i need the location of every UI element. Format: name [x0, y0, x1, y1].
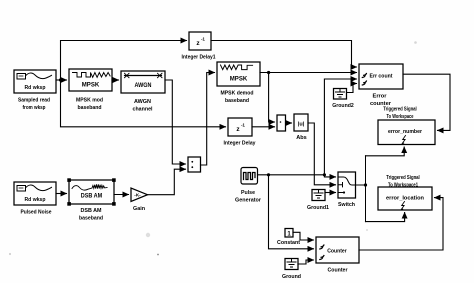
svg-text:-1: -1 [241, 123, 245, 128]
svg-text:baseband: baseband [79, 216, 104, 222]
svg-text:Triggered Signal: Triggered Signal [383, 107, 417, 113]
node branch junction at Rd wksp output [59, 78, 62, 81]
svg-text:Err count: Err count [370, 74, 393, 80]
svg-text:Generator: Generator [235, 198, 262, 204]
wire Integer Delay to Sum2 in2 [252, 126, 275, 128]
wire Constant to Counter in1 [293, 232, 314, 240]
label Integer Delay1 [182, 55, 216, 61]
wire Rd wksp to MPSK [56, 79, 67, 81]
svg-text:MPSK: MPSK [230, 76, 248, 83]
svg-text:Ground2: Ground2 [332, 103, 354, 109]
wire Sum1 up to MPSK demod [201, 73, 215, 166]
wire Pulse Generator branch up to Err count in3 [324, 79, 356, 175]
svg-text:Pulsed Noise: Pulsed Noise [21, 210, 52, 216]
wire Ground2 to Err count in4 [347, 84, 357, 93]
wire Gain up to Sum1 in2 [148, 169, 186, 195]
node junction Switch output [364, 183, 367, 186]
svg-text:Triggered Signal: Triggered Signal [386, 175, 420, 181]
svg-text:Integer Delay: Integer Delay [224, 141, 257, 147]
wire DSB AM to Gain [114, 194, 129, 196]
label Ground [282, 274, 302, 280]
svg-text:from wksp: from wksp [23, 105, 46, 111]
svg-text:AWGN: AWGN [135, 83, 152, 89]
wire Integer Delay1 to Err count in1 [211, 41, 357, 68]
block error_location (Triggered Signal To Workspace1) [378, 187, 432, 210]
svg-text:-1: -1 [201, 37, 205, 42]
wire demod branch down to Sum2 in1 [269, 73, 275, 123]
label MPSK mod baseband [76, 98, 104, 112]
label Ground1 [307, 205, 329, 211]
label Constant [277, 240, 300, 246]
svg-text:|u|: |u| [298, 122, 305, 128]
block Rd wksp (Sampled read from wksp) [14, 70, 56, 93]
svg-text:Abs: Abs [296, 135, 307, 141]
block Switch [338, 172, 356, 198]
svg-text:Sampled read: Sampled read [18, 98, 51, 104]
block AWGN channel [121, 71, 165, 93]
svg-text:DSB AM: DSB AM [81, 193, 103, 200]
block error_number (Triggered Signal To Workspace) [378, 120, 435, 145]
block Gain [131, 188, 148, 202]
label Integer Delay [224, 141, 257, 147]
wire MPSK demod to Err count in2 [260, 72, 357, 74]
node junction Pulse Generator branch up [323, 173, 326, 176]
wire MPSK to AWGN [112, 79, 119, 81]
svg-text:MPSK: MPSK [82, 82, 100, 89]
node junction demod output branch [267, 71, 270, 74]
svg-text:Ground: Ground [282, 274, 302, 280]
wire Ground to Counter in3 [298, 260, 314, 264]
svg-text:Ground1: Ground1 [307, 205, 329, 211]
wire Ground1 to Switch in3 [325, 192, 336, 194]
ground Ground [285, 259, 298, 270]
block Pulse Generator [241, 168, 258, 185]
block Sum1 (adder) [188, 157, 201, 172]
svg-text:MPSK demod: MPSK demod [221, 91, 255, 97]
svg-text:error_number: error_number [388, 129, 423, 135]
label DSB AM baseband [79, 208, 104, 222]
svg-text:Pulse: Pulse [241, 190, 255, 196]
label Pulse Generator [235, 190, 262, 204]
svg-text:error_location: error_location [386, 196, 425, 202]
wire branch up to Integer Delay1 [61, 41, 187, 81]
svg-text:baseband: baseband [225, 98, 250, 104]
wire Sum2 to Abs [286, 122, 292, 124]
wire Abs down to Switch in2 [308, 123, 336, 185]
block Rd wksp (Pulsed Noise) [14, 182, 56, 205]
svg-text:Rd wksp: Rd wksp [25, 85, 46, 91]
svg-text:Rd wksp: Rd wksp [25, 197, 46, 203]
block Sum2 (subtract) [277, 115, 286, 131]
wire branch down to Integer Delay [61, 80, 226, 127]
label Ground2 [332, 103, 354, 109]
svg-text:Error: Error [373, 94, 388, 100]
block Abs [294, 114, 308, 131]
block MPSK demod baseband [217, 62, 260, 86]
ground Ground1 [312, 190, 325, 201]
label Sampled read from wksp [18, 98, 51, 112]
svg-text:Switch: Switch [338, 202, 356, 208]
wire trigger bus vertical [365, 156, 367, 222]
wire Pulsed Noise to DSB AM [56, 193, 67, 195]
svg-text:To Workspace: To Workspace [387, 114, 414, 120]
label Abs [296, 135, 307, 141]
label Counter [328, 268, 349, 274]
label MPSK demod baseband [221, 91, 255, 105]
label Triggered Signal To Workspace1 [386, 175, 420, 189]
svg-text:To Workspace1: To Workspace1 [388, 183, 418, 189]
block DSB AM baseband (selected) [67, 178, 115, 205]
svg-text:MPSK mod: MPSK mod [76, 98, 104, 104]
block Counter [316, 237, 359, 263]
svg-text:baseband: baseband [78, 105, 103, 111]
svg-text:channel: channel [133, 107, 153, 113]
svg-text:AWGN: AWGN [134, 99, 151, 105]
label Switch [338, 202, 356, 208]
wire AWGN down to Sum1 in1 [165, 80, 186, 164]
wire Counter output to error_location [359, 198, 443, 250]
label Gain [133, 206, 146, 212]
svg-text:Integer Delay1: Integer Delay1 [182, 55, 216, 61]
wire trigger to error_location [366, 213, 405, 222]
block MPSK mod baseband U2 [69, 69, 112, 91]
block Constant [285, 229, 293, 238]
wire trigger to error_number [366, 147, 405, 156]
svg-text:-K-: -K- [134, 193, 141, 198]
node junction Pulse Generator branch down [267, 173, 270, 176]
wire Err count output to error_number [403, 74, 450, 130]
ground Ground2 [334, 89, 347, 100]
svg-text:Counter: Counter [328, 268, 349, 274]
label Triggered Signal To Workspace [383, 107, 417, 121]
block Err count (Error Rate Calculation) [359, 64, 403, 89]
label Pulsed Noise [21, 210, 52, 216]
block Integer Delay [228, 118, 252, 136]
svg-text:Constant: Constant [277, 240, 300, 246]
svg-text:DSB AM: DSB AM [81, 208, 102, 214]
label Error counter [370, 94, 392, 108]
wire Pulse Generator branch down to Counter in2 [269, 175, 314, 249]
wire Switch output to trigger bus [356, 184, 366, 186]
wire Pulse Generator to Switch in1 [258, 175, 336, 177]
svg-text:Gain: Gain [133, 206, 146, 212]
svg-text:Counter: Counter [327, 249, 347, 255]
label AWGN channel [133, 99, 153, 113]
block Integer Delay1 [189, 32, 211, 50]
